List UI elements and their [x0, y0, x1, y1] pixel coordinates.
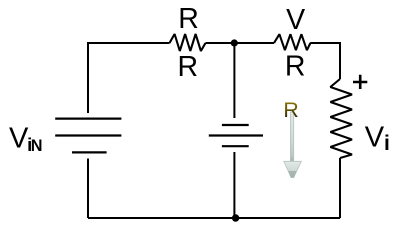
current arrow head — [284, 161, 302, 177]
svg-text:N: N — [31, 137, 43, 155]
svg-text:R: R — [285, 51, 306, 83]
resistor R2 (horizontal zigzag) — [274, 34, 310, 50]
battery B2 bottom plate (short) — [222, 145, 249, 147]
svg-text:V: V — [286, 4, 305, 36]
battery Vin plate 1 (long) — [55, 117, 121, 119]
svg-text:V: V — [365, 121, 385, 153]
wire bottom-left segment (Vin bottom to bottom rail) — [87, 159, 89, 219]
wire right-bottom segment (R3 bottom to bottom rail) — [339, 158, 341, 218]
battery B2 middle plate (long) — [209, 134, 263, 136]
svg-text:R: R — [178, 51, 199, 83]
bottom rail wire — [88, 217, 340, 219]
node B junction dot (bottom) — [232, 214, 239, 221]
wire top-left segment (Vin top to R1 left lead) — [88, 43, 170, 113]
current arrow shaft (pointer) — [290, 112, 293, 163]
battery Vin plate 2 (long) — [55, 134, 121, 136]
resistor R3 (vertical zigzag, load Vi) — [330, 79, 352, 158]
resistor R1 (horizontal zigzag) — [170, 34, 206, 51]
wire top-middle segment (R1 right to R2 left through node A) — [206, 42, 275, 44]
wire middle stub (node A down to battery B2) — [233, 43, 235, 118]
battery Vin plate 3 (short) — [72, 151, 107, 153]
wire middle-bottom stub (battery B2 to node B) — [233, 152, 235, 218]
plus sign polarity mark — [353, 75, 367, 89]
svg-text:V: V — [9, 123, 29, 155]
svg-text:R: R — [283, 98, 298, 122]
svg-text:i: i — [384, 132, 390, 155]
battery B2 top plate (short) — [222, 124, 249, 126]
svg-text:R: R — [178, 3, 199, 35]
current arrow head apex shading — [288, 171, 296, 177]
wire top-right segment and right drop to R3 top — [310, 43, 340, 79]
node A junction dot (top) — [231, 39, 238, 46]
